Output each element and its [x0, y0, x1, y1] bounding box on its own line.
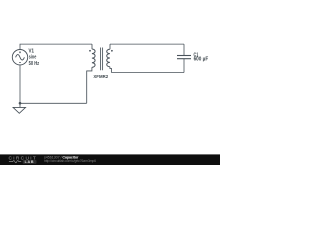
wire top-left from V1 to XFMR2 primary	[20, 44, 92, 49]
secondary winding coil	[107, 49, 110, 66]
label C1 value	[194, 52, 209, 62]
primary winding lead top	[91, 44, 93, 49]
secondary winding lead bottom	[110, 67, 112, 73]
svg-text:XFMR2: XFMR2	[93, 74, 108, 79]
svg-text:LAB: LAB	[25, 160, 35, 164]
label V1 value	[29, 49, 40, 67]
footer bar	[0, 154, 220, 165]
primary winding lead bottom	[87, 67, 92, 103]
svg-text:sine: sine	[29, 55, 37, 61]
transformer XFMR2	[87, 44, 112, 103]
svg-text:http://circuitlab.com/c/grtc76: http://circuitlab.com/c/grtc76am3mp6	[44, 159, 96, 163]
wire XFMR2 secondary top to C1	[110, 43, 184, 45]
footer logo wire sine	[9, 160, 21, 162]
transformer core	[101, 48, 103, 71]
ground	[13, 103, 25, 113]
wire ground node to XFMR2 primary bottom	[20, 102, 87, 104]
secondary winding lead top	[109, 44, 111, 49]
primary winding coil	[92, 49, 95, 67]
wire V1 bottom to ground node	[19, 65, 21, 103]
node junction at ground	[19, 102, 22, 105]
svg-text:600 µF: 600 µF	[194, 57, 209, 63]
voltage source V1	[12, 50, 27, 65]
phase dot secondary	[111, 50, 113, 52]
wire XFMR2 secondary bottom to C1	[111, 72, 184, 74]
capacitor C1	[177, 44, 191, 72]
phase dot primary	[89, 50, 91, 52]
svg-text:50 Hz: 50 Hz	[29, 61, 40, 67]
footer logo LAB box	[23, 160, 37, 164]
